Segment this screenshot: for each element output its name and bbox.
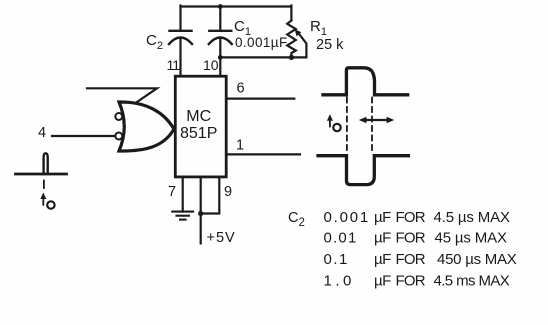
svg-text:4.5 µs MAX: 4.5 µs MAX [434,209,510,226]
svg-text:4.5 ms MAX: 4.5 ms MAX [434,273,510,290]
wiper wire of R1 [300,35,307,58]
input pulse waveform [16,173,67,176]
svg-text:25 k: 25 k [316,37,344,53]
svg-text:1: 1 [236,138,244,154]
svg-text:FOR: FOR [396,209,426,226]
svg-text:10: 10 [203,57,219,73]
svg-text:0.001µF: 0.001µF [235,35,288,50]
svg-text:µF: µF [374,273,391,290]
node junction on pin 10 wire [218,55,223,60]
op IC U1 MC851P box [175,76,226,177]
svg-text:µF: µF [374,209,391,226]
wire C2 to pin 11 [179,39,181,77]
node +5V junction [198,211,203,216]
dashed tick below pulse [43,181,45,189]
width adjust arrow [363,119,391,121]
node R1 bottom junction [289,55,294,60]
wire top rail [181,5,292,7]
OR gate G1 [119,102,174,151]
svg-text:4: 4 [38,125,46,141]
wire input 4 [52,135,115,137]
svg-text:9: 9 [224,184,232,200]
output waveform bottom (pin 1) [318,156,408,185]
svg-text:0.001: 0.001 [324,209,371,226]
wire top rail to R1 [290,6,292,21]
svg-text:0.01: 0.01 [324,230,358,247]
wire gate top input [87,88,157,103]
svg-text:FOR: FOR [396,273,426,290]
svg-text:0.1: 0.1 [324,251,349,268]
capacitor C2 [169,31,192,44]
wiper arrowhead [295,29,302,36]
svg-text:FOR: FOR [396,251,426,268]
wire C1 node to R1 bottom [220,56,306,58]
wire pin 7 to ground [182,177,184,212]
gate input bubble top [115,113,122,120]
ground [172,212,193,220]
wire pin 1 output [226,153,300,155]
capacitor C1 [209,31,232,44]
wire C2 top stub [179,6,181,30]
svg-text:450 µs MAX: 450 µs MAX [437,251,517,268]
svg-text:+5V: +5V [207,230,236,246]
svg-text:MC: MC [186,108,211,125]
svg-text:11: 11 [167,57,181,73]
dashed timing line left [346,98,348,153]
dashed timing line right [371,98,373,153]
wire C1 top stub [219,6,221,30]
wire pin 9 to +5V node [201,177,220,214]
output waveform top (pin 6) [323,68,408,95]
wire pin 6 output [226,97,294,99]
svg-text:µF: µF [374,251,391,268]
svg-text:FOR: FOR [396,230,426,247]
wire C1 to pin 10 [219,39,221,77]
svg-text:851P: 851P [180,125,217,142]
svg-text:45 µs MAX: 45 µs MAX [435,230,507,247]
node junction on top rail [218,4,223,9]
wire pin 8 to +5V [200,177,202,244]
svg-text:7: 7 [168,184,176,200]
svg-text:6: 6 [237,81,245,97]
svg-text:1.0: 1.0 [324,273,355,290]
label t0 (input) [42,197,44,205]
C2 table [288,209,517,290]
svg-text:µF: µF [374,230,391,247]
gate input bubble bottom [115,133,122,140]
resistor R1 (potentiometer) [287,21,296,58]
label t0 (output) [329,119,331,127]
